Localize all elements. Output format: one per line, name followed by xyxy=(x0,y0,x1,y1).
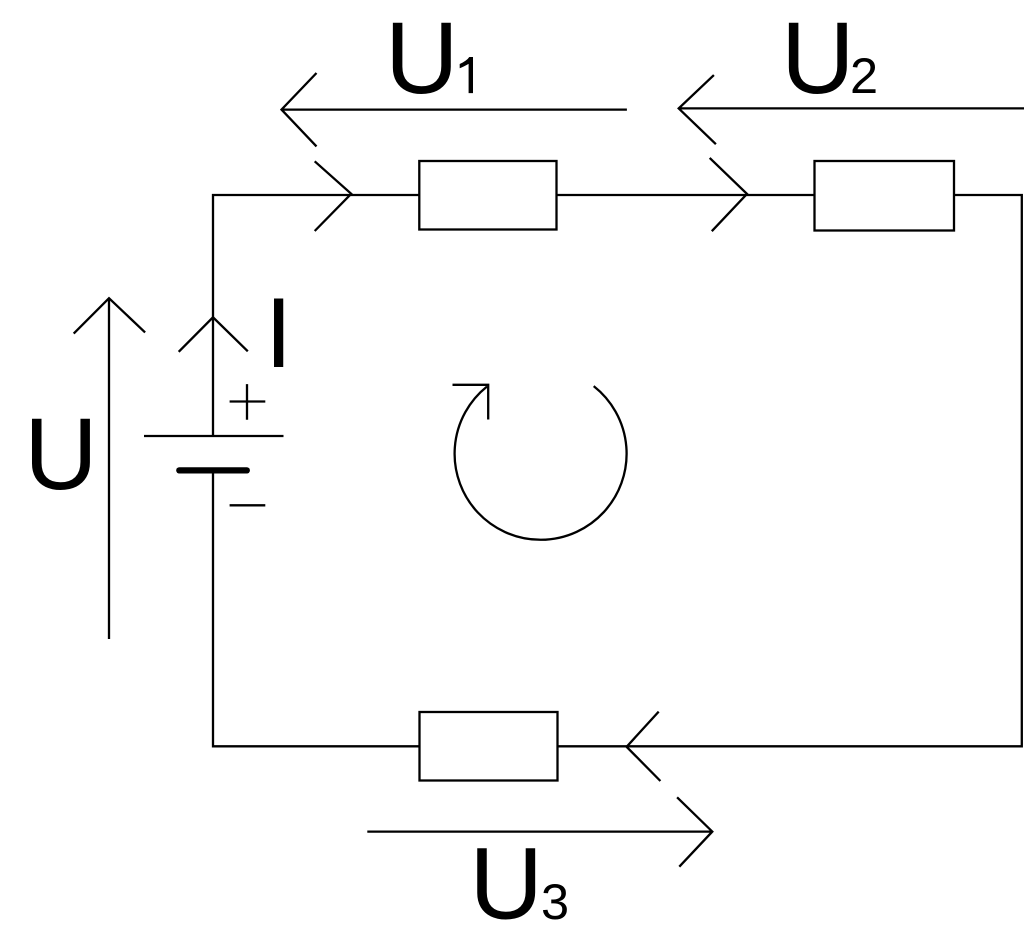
loop direction arrow arc (clockwise circle, open at top) xyxy=(455,386,627,540)
svg-text:U: U xyxy=(385,1,459,115)
svg-text:3: 3 xyxy=(541,873,569,930)
resistor R2 xyxy=(815,161,955,231)
label U1 subscript 1 (drawn path, sans-serif style without foot) xyxy=(460,57,473,93)
current direction chevron on bottom wire (pointing left) xyxy=(627,712,661,781)
battery B1 negative plate (short thick) xyxy=(179,467,247,473)
svg-text:U: U xyxy=(781,1,855,115)
loop direction arrowhead (corner barbs at upper-left of arc) xyxy=(453,385,489,420)
current direction chevron on top wire (pointing right) xyxy=(315,161,352,231)
svg-text:U: U xyxy=(469,827,543,941)
battery minus sign xyxy=(230,504,266,506)
voltage arrow U (pointing up, left of battery) xyxy=(74,298,145,639)
wire: battery positive terminal up to top-left corner and right to resistor R1 xyxy=(213,195,419,436)
resistor R1 xyxy=(419,161,556,230)
resistor R3 xyxy=(420,712,558,781)
current direction chevron on top wire between R1 and R2 (pointing right) xyxy=(710,158,747,231)
wire: R2 to top-right corner, down right side, to bottom-right corner, left to R3 xyxy=(558,195,1022,746)
battery plus sign xyxy=(230,384,266,420)
current direction chevron on left wire above battery (pointing up) xyxy=(179,317,248,352)
wire: R1 to R2 xyxy=(557,194,815,196)
svg-text:I: I xyxy=(265,277,293,388)
voltage arrow U3 (pointing right, below bottom wire) xyxy=(367,797,712,866)
wire: R3 to bottom-left corner and up to battery negative terminal xyxy=(213,470,420,746)
svg-text:2: 2 xyxy=(850,47,878,104)
svg-text:U: U xyxy=(24,397,98,511)
voltage arrow U2 (pointing left, above top wire right section) xyxy=(679,75,1024,144)
voltage arrow U1 (pointing left, above top wire) xyxy=(282,73,627,146)
battery B1 positive plate (long thin) xyxy=(144,435,284,437)
